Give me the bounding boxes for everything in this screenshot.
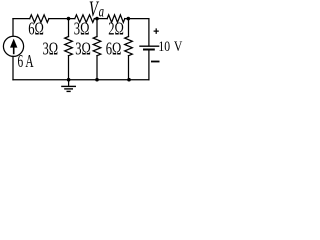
node dot Va top xyxy=(95,17,99,21)
wire top-left horizontal xyxy=(13,18,30,20)
wire right branch lower xyxy=(148,51,150,80)
node dot shunt2 bottom xyxy=(95,78,99,82)
battery V1 10V long plate xyxy=(139,45,159,47)
wire shunt2 upper stub xyxy=(96,19,98,37)
resistor R2 3ohm (series, top) xyxy=(75,15,95,23)
wire left branch upper xyxy=(12,19,14,36)
label battery minus xyxy=(151,61,160,63)
wire shunt3 upper stub xyxy=(128,19,130,37)
resistor R6 6ohm (shunt at node3) xyxy=(125,37,133,56)
wire top between R2 and node Va xyxy=(94,18,107,20)
ground symbol xyxy=(61,80,76,92)
battery V1 10V short plate xyxy=(143,49,155,51)
node dot shunt3 bottom xyxy=(127,78,131,82)
svg-text:10: 10 xyxy=(158,38,170,55)
svg-text:V: V xyxy=(174,38,183,55)
wire shunt1 upper stub xyxy=(68,19,70,37)
label battery plus xyxy=(154,28,159,34)
wire shunt2 lower stub xyxy=(96,56,98,80)
resistor R1 6ohm (series, top) xyxy=(30,15,49,23)
wire top between R1 and node1 xyxy=(49,18,75,20)
svg-text:2Ω: 2Ω xyxy=(108,19,124,39)
svg-text:3Ω: 3Ω xyxy=(75,40,91,60)
svg-text:6 A: 6 A xyxy=(18,53,34,72)
svg-text:3Ω: 3Ω xyxy=(43,40,59,60)
wire top-right horizontal xyxy=(125,18,149,20)
svg-text:a: a xyxy=(99,2,105,19)
node dot node3 top xyxy=(127,17,131,21)
svg-text:3Ω: 3Ω xyxy=(74,19,90,39)
wire right branch upper xyxy=(148,19,150,46)
current source I1 circle xyxy=(3,36,23,56)
wire shunt1 lower stub xyxy=(68,56,70,80)
node dot ground bottom xyxy=(67,78,71,82)
node dot node1 top xyxy=(67,17,71,21)
wire left branch lower xyxy=(12,56,14,79)
svg-text:6Ω: 6Ω xyxy=(28,19,44,39)
resistor R5 3ohm (shunt at node Va) xyxy=(93,37,101,56)
wire bottom horizontal xyxy=(13,79,149,81)
svg-text:6Ω: 6Ω xyxy=(106,40,122,60)
current source I1 arrow xyxy=(10,39,17,55)
resistor R3 2ohm (series, top) xyxy=(107,15,125,23)
resistor R4 3ohm (shunt at node1) xyxy=(65,37,73,56)
wire shunt3 lower stub xyxy=(128,56,130,80)
